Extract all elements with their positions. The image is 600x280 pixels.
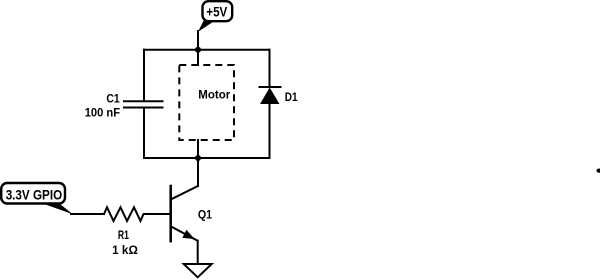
svg-text:3.3V GPIO: 3.3V GPIO xyxy=(6,187,63,202)
svg-text:+5V: +5V xyxy=(206,4,227,19)
svg-text:100 nF: 100 nF xyxy=(85,108,120,120)
svg-text:D1: D1 xyxy=(285,92,298,104)
svg-text:Q1: Q1 xyxy=(198,210,213,222)
svg-text:1 kΩ: 1 kΩ xyxy=(112,245,138,257)
svg-text:C1: C1 xyxy=(106,93,120,105)
svg-text:Motor: Motor xyxy=(198,89,230,101)
svg-text:R1: R1 xyxy=(118,230,129,242)
